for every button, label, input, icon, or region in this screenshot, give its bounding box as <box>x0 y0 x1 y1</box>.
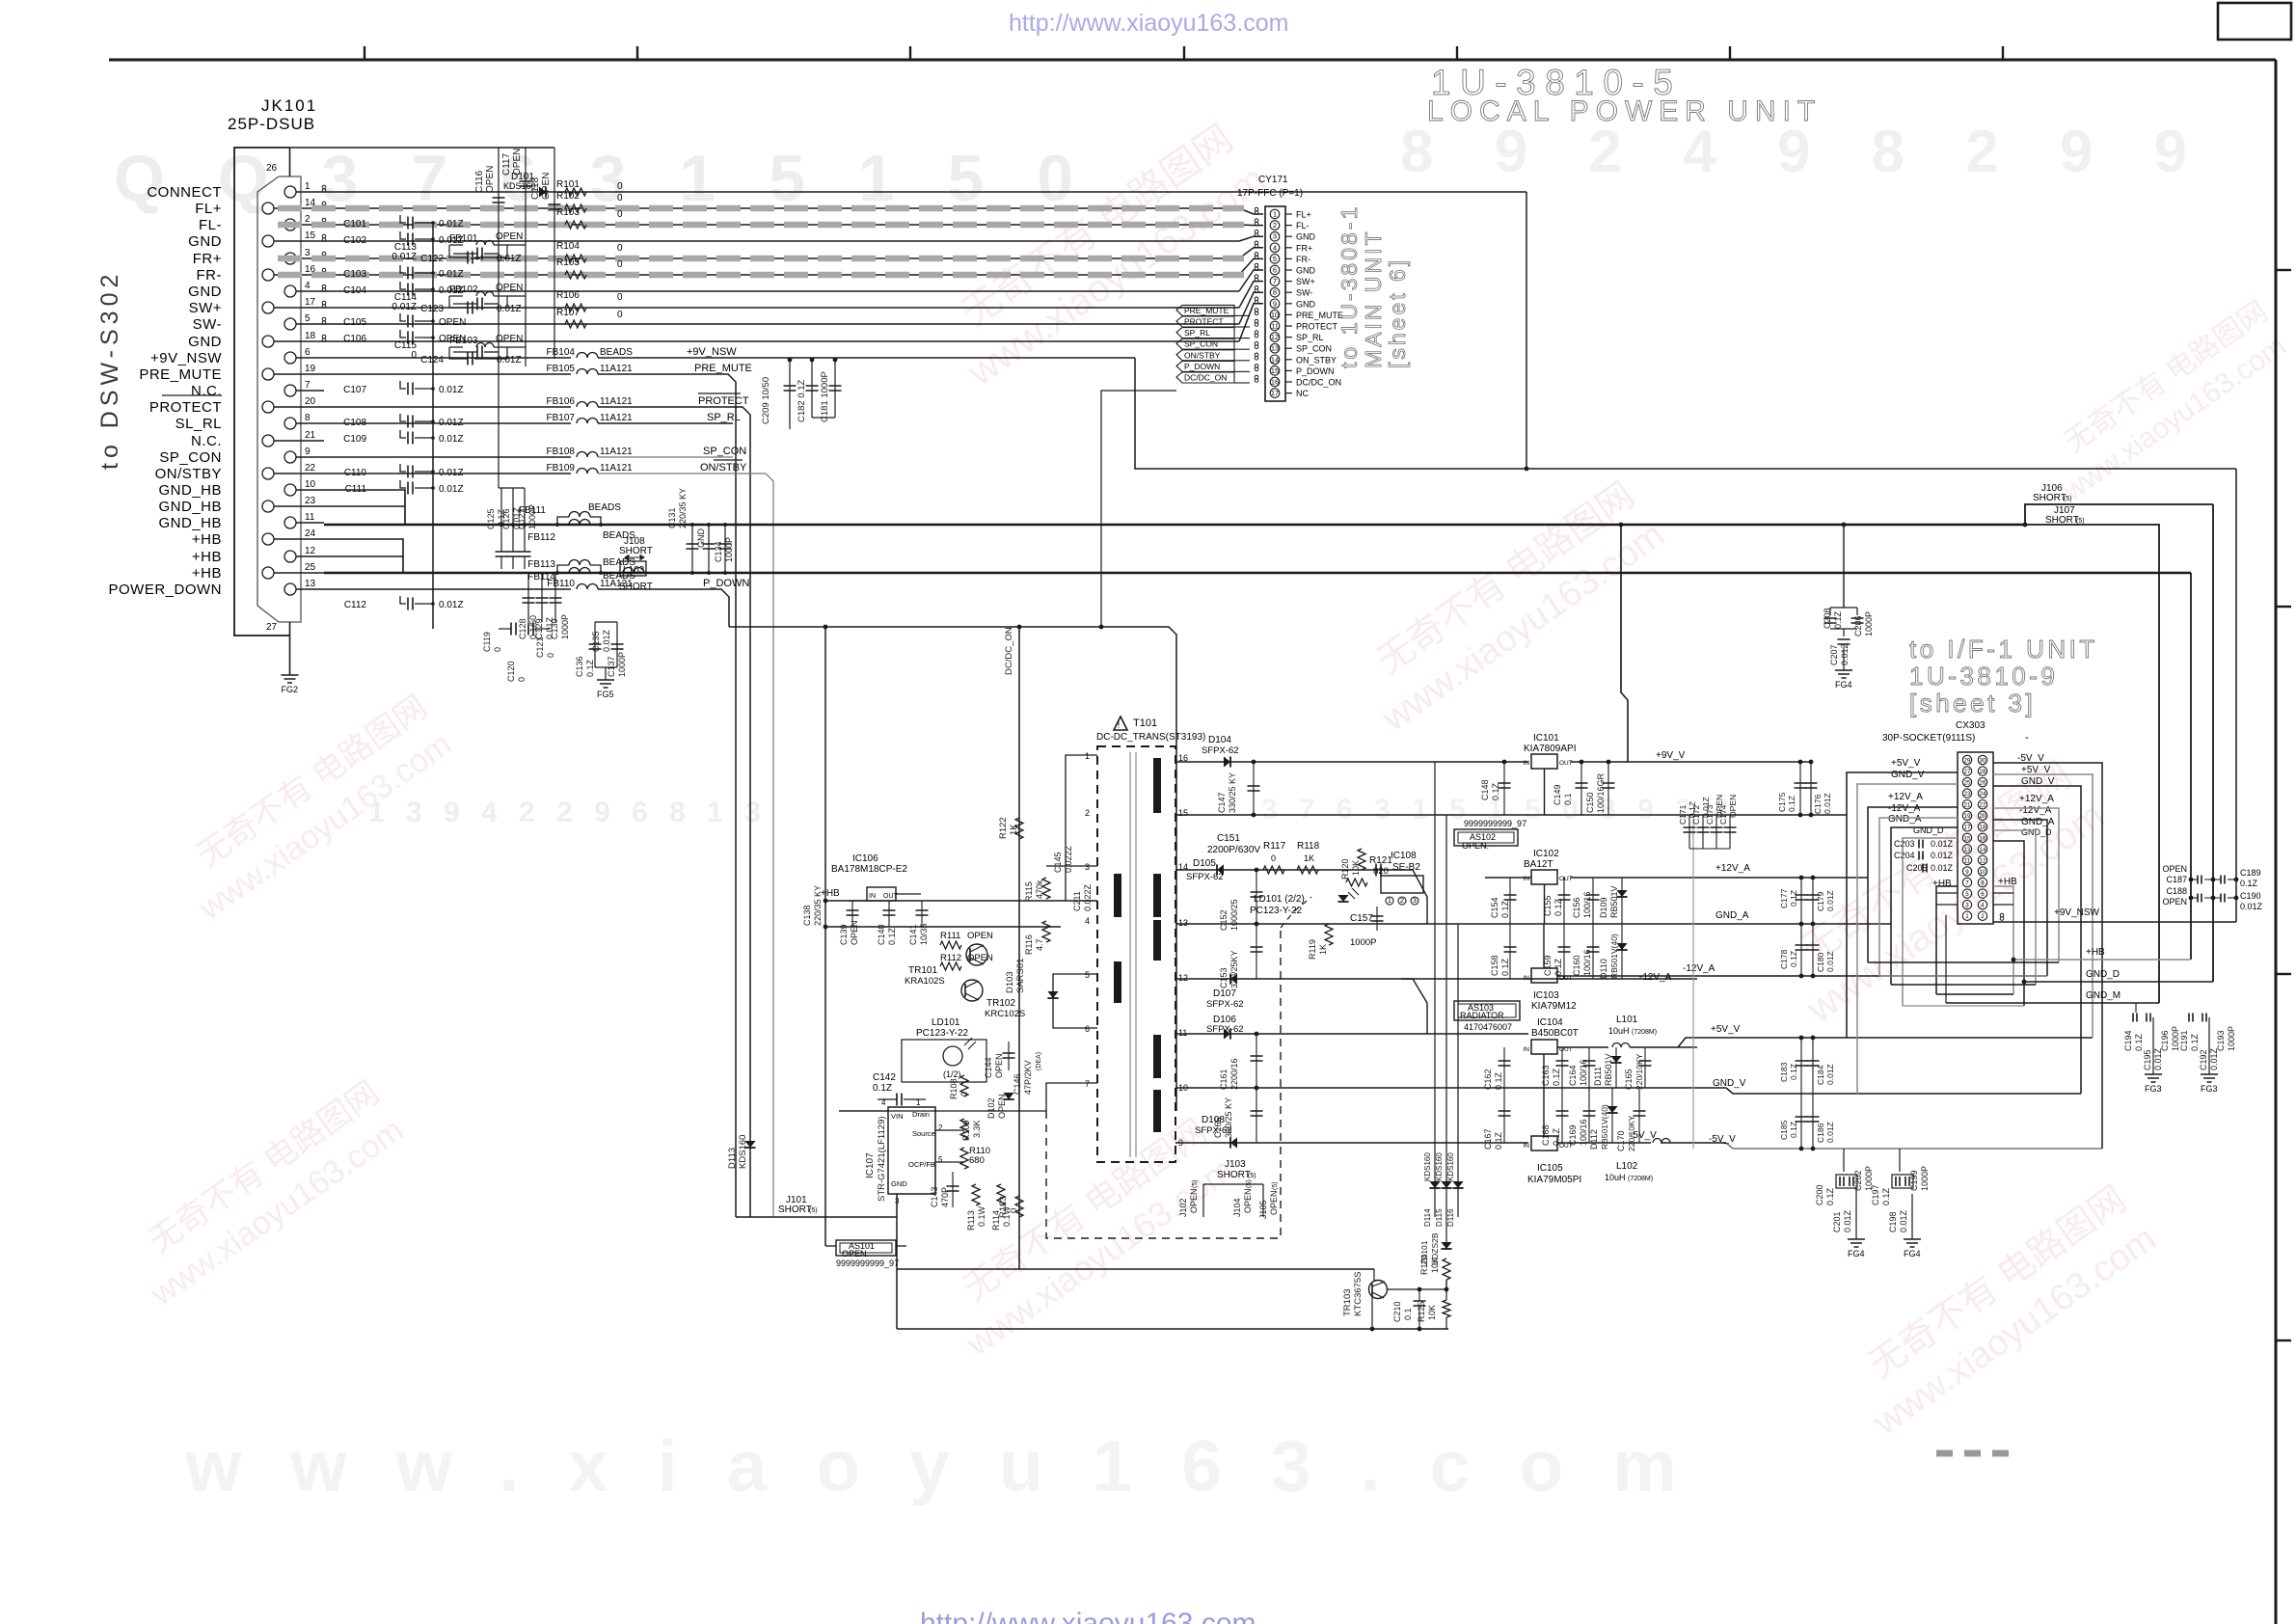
resistor R114 0.1W vertical <box>997 1184 1005 1205</box>
svg-text:R115: R115 <box>1024 881 1034 902</box>
svg-text:D103: D103 <box>1005 971 1015 993</box>
module AS103 RADIATOR <box>1454 1001 1520 1020</box>
svg-text:0.1Z: 0.1Z <box>2134 1033 2144 1051</box>
rail GND_V y=1134 <box>1485 1087 1726 1089</box>
capacitor C101 0.01Z <box>400 215 406 223</box>
rail +5V_V y=1076 <box>1678 1038 2093 1047</box>
svg-text:C152: C152 <box>1219 909 1229 931</box>
svg-text:C178: C178 <box>1779 949 1789 969</box>
svg-text:DC/DC_ON: DC/DC_ON <box>1296 378 1341 388</box>
svg-text:C138: C138 <box>802 905 812 926</box>
svg-text:C173: C173 <box>1705 804 1715 825</box>
svg-text:C120: C120 <box>506 661 516 682</box>
svg-text:(5): (5) <box>1192 1179 1199 1188</box>
svg-text:R125: R125 <box>1417 1301 1426 1322</box>
svg-text:OPEN: OPEN <box>1269 1190 1279 1215</box>
wire net to CY171 pin 6 <box>324 290 1239 292</box>
nest right rail 5 <box>1993 820 2047 976</box>
svg-text:0: 0 <box>617 259 623 270</box>
svg-text:25P-DSUB: 25P-DSUB <box>228 115 315 133</box>
svg-text:0.1W: 0.1W <box>977 1205 986 1227</box>
rail gnd primary y=961 <box>825 926 1061 928</box>
svg-text:FB113: FB113 <box>527 559 555 570</box>
svg-text:DC/DC_ON: DC/DC_ON <box>1184 373 1227 383</box>
nest right rail 6 <box>1993 830 2036 985</box>
capacitor C111 0.01Z <box>400 480 406 488</box>
svg-text:-5V_V: -5V_V <box>1709 1134 1736 1145</box>
capacitor C116 OPEN vertical <box>498 148 500 488</box>
svg-text:0.1Z: 0.1Z <box>1833 610 1843 629</box>
warning triangle <box>1114 717 1127 730</box>
wire pins 10-23-11 GND_HB join <box>324 490 405 525</box>
svg-text:680: 680 <box>969 1155 985 1166</box>
svg-text:PROTECT: PROTECT <box>698 395 749 407</box>
wire net to CY171 pin 1 <box>324 207 1239 209</box>
svg-text:(5): (5) <box>1248 1173 1256 1179</box>
svg-text:OUT: OUT <box>1559 760 1573 767</box>
svg-text:13: 13 <box>1964 847 1971 853</box>
svg-text:11: 11 <box>1271 321 1279 330</box>
svg-text:220/35 KY: 220/35 KY <box>678 488 688 528</box>
wire +HB rail down right side <box>2190 573 2192 960</box>
svg-text:D115: D115 <box>1435 1208 1444 1227</box>
svg-text:IC103: IC103 <box>1533 990 1559 1001</box>
svg-text:9: 9 <box>1965 869 1969 876</box>
svg-text:10: 10 <box>1980 869 1986 876</box>
JK101 pin 25 (+HB) <box>262 567 274 579</box>
nest left rail 6 <box>1903 838 1958 1006</box>
rail -12V_A y=1012 <box>1697 975 2047 977</box>
svg-text:0: 0 <box>546 653 555 658</box>
CX303 pins 11/12 <box>1962 855 1971 864</box>
CY171 pin 4 (FR+) <box>1270 243 1280 253</box>
svg-text:GND: GND <box>1296 232 1316 242</box>
CX303 pins 25/26 <box>1962 777 1971 786</box>
svg-text:47P/2KV: 47P/2KV <box>1023 1060 1033 1095</box>
svg-text:0.01Z: 0.01Z <box>1825 1122 1835 1143</box>
svg-text:C107: C107 <box>343 385 366 395</box>
svg-text:R107: R107 <box>556 308 580 318</box>
svg-text:(7208M): (7208M) <box>1628 1176 1653 1182</box>
svg-text:J103: J103 <box>1225 1159 1246 1170</box>
svg-text:C123: C123 <box>420 304 444 314</box>
svg-text:10: 10 <box>1271 311 1279 319</box>
border tick marks right <box>2276 269 2291 271</box>
JK101 pin 10 (GND_HB) <box>284 484 296 496</box>
svg-text:OPEN: OPEN <box>2162 864 2187 874</box>
svg-text:C195: C195 <box>2143 1049 2152 1070</box>
svg-text:SHORT: SHORT <box>619 546 653 556</box>
svg-text:POWER_DOWN: POWER_DOWN <box>109 582 223 598</box>
svg-text:6: 6 <box>1085 1024 1090 1034</box>
svg-text:FR+: FR+ <box>193 251 222 267</box>
svg-text:3.3K: 3.3K <box>972 1120 982 1138</box>
CX303 pins 3/4 <box>1962 900 1971 908</box>
svg-text:4.7: 4.7 <box>1035 938 1044 951</box>
svg-text:ON/STBY: ON/STBY <box>155 466 222 482</box>
svg-text:C160: C160 <box>1572 955 1581 976</box>
svg-text:FB111: FB111 <box>519 505 546 516</box>
svg-text:DC/DC_ON: DC/DC_ON <box>1004 627 1014 675</box>
transformer secondary winding bars <box>1153 758 1161 813</box>
svg-text:0.01Z: 0.01Z <box>1931 839 1954 849</box>
svg-text:KDS160: KDS160 <box>1435 1152 1444 1181</box>
svg-text:GND: GND <box>1296 299 1316 309</box>
svg-text:FR-: FR- <box>197 267 223 284</box>
ferrite bead FB106 11A121 <box>324 406 571 408</box>
svg-text:0.1Z: 0.1Z <box>873 1083 892 1094</box>
svg-text:18: 18 <box>1980 825 1986 831</box>
gray vertical line left of nest <box>1692 815 1694 1149</box>
svg-text:10: 10 <box>305 479 316 490</box>
JK101 pin 9 (SP_CON) <box>284 451 296 463</box>
svg-text:C103: C103 <box>343 269 366 280</box>
svg-text:C191: C191 <box>2179 1030 2189 1051</box>
secondary wire pin9 with D108 <box>1175 1142 1528 1144</box>
svg-text:SE-B2: SE-B2 <box>1392 862 1420 873</box>
svg-text:CONNECT: CONNECT <box>147 184 222 201</box>
CX303 pins 21/22 <box>1962 800 1971 809</box>
svg-text:15: 15 <box>1964 835 1971 842</box>
nest bottom connections <box>1868 961 2059 963</box>
svg-text:2: 2 <box>305 214 311 225</box>
svg-text:N.C.: N.C. <box>191 433 222 449</box>
svg-text:C139: C139 <box>839 924 849 945</box>
svg-text:C105: C105 <box>343 317 366 328</box>
svg-text:24: 24 <box>305 528 316 539</box>
secondary wire pin16 with D104 <box>1175 761 1528 763</box>
svg-text:FG4: FG4 <box>1904 1249 1921 1259</box>
CX303 pins 13/14 <box>1962 845 1971 853</box>
svg-text:[sheet 3]: [sheet 3] <box>1909 689 2036 717</box>
svg-text:L101: L101 <box>1616 1015 1638 1025</box>
svg-text:220/35 KY: 220/35 KY <box>813 885 823 926</box>
svg-text:BA12T: BA12T <box>1524 859 1553 870</box>
svg-text:+HB: +HB <box>2086 947 2105 958</box>
svg-text:0: 0 <box>617 310 623 320</box>
svg-text:1K: 1K <box>1318 944 1328 955</box>
svg-text:C155: C155 <box>1543 895 1553 916</box>
svg-text:0.1Z: 0.1Z <box>1494 1131 1503 1150</box>
JK101 pin 5 (SW-) <box>284 318 296 330</box>
connector JK101 outer box <box>234 148 290 636</box>
svg-text:D105: D105 <box>1193 858 1216 869</box>
svg-text:2200P/630V: 2200P/630V <box>1207 845 1260 855</box>
svg-text:SHORT: SHORT <box>2033 493 2066 503</box>
svg-text:0.01Z: 0.01Z <box>602 629 611 652</box>
svg-text:0.01Z: 0.01Z <box>1823 793 1832 814</box>
svg-text:(5): (5) <box>1272 1181 1279 1190</box>
svg-text:GND_HB: GND_HB <box>158 515 222 531</box>
svg-text:100/16: 100/16 <box>1579 1059 1588 1086</box>
svg-text:10/35: 10/35 <box>919 923 929 945</box>
svg-text:1 3 9 4 2 2 9 6 8 1 3: 1 3 9 4 2 2 9 6 8 1 3 <box>368 797 768 828</box>
svg-text:330/25KY: 330/25KY <box>1229 950 1239 988</box>
heavy rail GND_HB y=544 <box>324 524 2025 527</box>
rail +HB into primary y=934 <box>825 900 1097 902</box>
capacitor C106 OPEN <box>400 330 406 338</box>
svg-text:OPEN: OPEN <box>496 283 523 293</box>
svg-text:7: 7 <box>1965 880 1969 886</box>
svg-text:0.1Z: 0.1Z <box>1552 1068 1561 1086</box>
svg-text:0.01Z: 0.01Z <box>1840 642 1850 665</box>
svg-text:10K: 10K <box>1351 860 1361 876</box>
svg-text:Source: Source <box>912 1129 935 1138</box>
svg-text:0.1Z: 0.1Z <box>2240 879 2258 888</box>
nest right rail 3 <box>1993 786 2081 1094</box>
svg-text:C180: C180 <box>1816 952 1825 972</box>
svg-text:C211: C211 <box>1072 891 1082 911</box>
capacitor bus vertical line <box>432 222 434 629</box>
svg-text:-5V_V: -5V_V <box>1630 1130 1657 1141</box>
rail GND_D y=1018 <box>2024 981 2213 983</box>
svg-text:TR102: TR102 <box>986 998 1015 1009</box>
svg-text:IC107: IC107 <box>865 1152 876 1178</box>
svg-text:C183: C183 <box>1779 1062 1789 1082</box>
svg-text:GND_A: GND_A <box>1888 814 1922 825</box>
net label box DC/DC_ON <box>1176 372 1234 383</box>
svg-text:C153: C153 <box>1219 967 1229 988</box>
svg-text:0: 0 <box>617 193 623 203</box>
svg-text:19: 19 <box>1964 813 1971 820</box>
nest left rail 1 <box>1847 772 1958 1038</box>
svg-text:SP_CON: SP_CON <box>703 446 746 457</box>
wire pins 24-12 +HB join <box>324 539 403 573</box>
svg-text:C189: C189 <box>2240 868 2261 878</box>
svg-text:PROTECT: PROTECT <box>149 399 222 416</box>
svg-text:1000P: 1000P <box>560 614 570 639</box>
svg-text:SP_CON: SP_CON <box>159 449 222 466</box>
svg-text:27: 27 <box>1964 769 1971 775</box>
svg-text:R118: R118 <box>1297 841 1320 852</box>
svg-text:J102: J102 <box>1178 1198 1188 1217</box>
svg-text:0.1Z: 0.1Z <box>1500 958 1510 976</box>
ground FG4 under C207 <box>1835 670 1852 678</box>
svg-text:4: 4 <box>881 1098 886 1107</box>
svg-text:24: 24 <box>1980 791 1986 798</box>
svg-text:0.1Z: 0.1Z <box>1553 898 1563 916</box>
svg-text:IC105: IC105 <box>1537 1163 1563 1174</box>
JK101 pin 15 (GND) <box>262 235 274 247</box>
svg-text:0.1Z: 0.1Z <box>887 927 897 945</box>
svg-text:29: 29 <box>1964 757 1971 764</box>
svg-text:R119: R119 <box>1308 939 1317 960</box>
svg-text:5: 5 <box>1273 255 1277 263</box>
JK101 pin 20 (PROTECT) <box>262 401 274 413</box>
resistor R120 10K vertical <box>1358 849 1365 870</box>
JK101 pin 7 (N.C.) <box>284 385 296 396</box>
svg-text:STR-G7421(LF1129): STR-G7421(LF1129) <box>877 1116 887 1202</box>
svg-text:C171: C171 <box>1678 804 1688 825</box>
module AS101 OPEN <box>836 1240 896 1256</box>
thick gray dashed overlay <box>278 272 1244 279</box>
resistor R110 680 vertical <box>960 1148 968 1169</box>
svg-text:D111: D111 <box>1593 1067 1603 1086</box>
svg-text:0.01Z: 0.01Z <box>439 434 464 445</box>
svg-text:4: 4 <box>1085 916 1090 926</box>
svg-text:-12V_A: -12V_A <box>1683 963 1715 974</box>
svg-text:9999999999_97: 9999999999_97 <box>1464 819 1526 828</box>
svg-text:220/10KY: 220/10KY <box>1634 1053 1644 1090</box>
svg-text:GND_V: GND_V <box>1891 770 1925 780</box>
svg-text:0.022Z: 0.022Z <box>1064 845 1073 873</box>
thick gray dashed overlay <box>278 205 1244 212</box>
ferrite bead FB110 11A121 <box>324 588 571 590</box>
svg-text:0.01Z: 0.01Z <box>2153 1047 2163 1070</box>
svg-text:FG4: FG4 <box>1835 680 1852 690</box>
svg-text:15: 15 <box>305 230 316 241</box>
svg-text:C106: C106 <box>343 334 366 344</box>
svg-text:D109: D109 <box>1599 897 1608 918</box>
JK101 pin 1 (CONNECT) <box>284 186 296 198</box>
JK101 pin 11 (GND_HB) <box>284 517 296 528</box>
diode D104 SFPX-62 <box>1224 756 1230 767</box>
resistor R116 4.7 vertical <box>1042 921 1050 942</box>
svg-text:0.01Z: 0.01Z <box>439 484 464 495</box>
resistor R115 470k vertical <box>1042 878 1050 899</box>
net label box P_DOWN <box>1176 361 1234 371</box>
svg-text:0.01Z: 0.01Z <box>2240 902 2263 911</box>
bottom rail y=1316 <box>897 1268 1374 1270</box>
svg-text:0.01Z: 0.01Z <box>439 600 464 610</box>
net label box PRE_MUTE <box>1176 305 1234 315</box>
svg-text:C130: C130 <box>550 618 559 639</box>
svg-text:11: 11 <box>305 512 315 523</box>
svg-text:FG3: FG3 <box>2201 1084 2218 1094</box>
svg-text:0: 0 <box>959 1092 969 1096</box>
svg-text:26: 26 <box>266 163 278 174</box>
svg-text:http://www.xiaoyu163.com: http://www.xiaoyu163.com <box>1009 10 1288 37</box>
svg-text:+HB: +HB <box>821 888 840 899</box>
svg-text:C124: C124 <box>420 355 444 365</box>
primary connection wires <box>1066 755 1097 901</box>
svg-text:OPEN: OPEN <box>496 334 523 344</box>
ground FG4 right <box>1904 1239 1921 1247</box>
svg-text:22: 22 <box>305 463 316 474</box>
svg-text:FB103: FB103 <box>449 336 478 346</box>
JK101 pin 12 (+HB) <box>284 551 296 562</box>
CX303 pins 5/6 <box>1962 889 1971 898</box>
svg-text:3: 3 <box>1085 862 1090 872</box>
svg-text:470k: 470k <box>1035 880 1044 899</box>
svg-text:LD101: LD101 <box>932 1017 960 1028</box>
border right line <box>2275 60 2278 1624</box>
svg-text:C198: C198 <box>1888 1211 1898 1232</box>
svg-text:0: 0 <box>617 209 623 220</box>
svg-text:R105: R105 <box>556 257 580 268</box>
svg-text:MAIN UNIT: MAIN UNIT <box>1361 229 1386 368</box>
svg-text:(5): (5) <box>2076 518 2085 525</box>
svg-text:SP_CON: SP_CON <box>1296 344 1332 354</box>
svg-text:C200: C200 <box>1815 1184 1824 1205</box>
svg-text:1: 1 <box>916 1098 921 1107</box>
svg-text:SP_RL: SP_RL <box>1184 328 1210 338</box>
svg-text:C205: C205 <box>1906 863 1928 873</box>
wire ON/STBY trunk down <box>598 474 773 1217</box>
svg-text:OPEN: OPEN <box>850 920 859 945</box>
svg-text:C185: C185 <box>1779 1120 1789 1140</box>
svg-text:27: 27 <box>266 622 278 633</box>
svg-text:0.01Z: 0.01Z <box>439 219 464 230</box>
svg-text:[sheet 6]: [sheet 6] <box>1385 257 1410 368</box>
svg-text:C112: C112 <box>344 600 367 610</box>
svg-text:RB501V: RB501V <box>1604 1053 1613 1086</box>
svg-text:GND_V: GND_V <box>1713 1078 1746 1089</box>
secondary dashed boundary <box>1046 928 1281 1238</box>
svg-text:OUT: OUT <box>1559 876 1573 882</box>
watermark diagonal center <box>1346 474 1672 740</box>
svg-text:PRE_MUTE: PRE_MUTE <box>139 366 222 383</box>
CY171 pin 17 (NC) <box>1270 389 1280 398</box>
svg-text:C122: C122 <box>420 254 444 264</box>
wire net to CY171 pin 8 <box>324 323 1239 325</box>
svg-text:9: 9 <box>305 447 311 457</box>
svg-text:(1/2): (1/2) <box>943 1069 961 1079</box>
svg-text:0: 0 <box>517 677 527 682</box>
svg-text:BA178M18CP-E2: BA178M18CP-E2 <box>831 864 907 875</box>
svg-text:23: 23 <box>305 496 316 506</box>
transformer T101 dashed box <box>1097 746 1175 1162</box>
svg-text:FB104: FB104 <box>547 347 576 358</box>
svg-text:11: 11 <box>1178 1028 1187 1038</box>
svg-text:0.01Z: 0.01Z <box>1825 890 1835 911</box>
svg-text:FR+: FR+ <box>1296 243 1312 253</box>
svg-text:0.01Z: 0.01Z <box>1825 1064 1835 1085</box>
heavy rail +HB y=594 <box>324 572 2191 574</box>
svg-text:R106: R106 <box>556 290 580 301</box>
wire net to CY171 pin 9 <box>324 340 1239 342</box>
resistor R106 0 <box>565 304 586 311</box>
rail +9V_NSW into CX303 pin2 <box>1993 921 2236 923</box>
svg-text:1: 1 <box>305 181 311 192</box>
svg-text:+9V_NSW: +9V_NSW <box>2054 907 2100 918</box>
svg-text:IN: IN <box>1524 1046 1530 1053</box>
svg-text:SFPX-62: SFPX-62 <box>1206 1024 1244 1035</box>
svg-text:GND_A: GND_A <box>1715 910 1749 921</box>
svg-text:0.01Z: 0.01Z <box>1825 951 1835 972</box>
diode D106 SFPX-62 <box>1224 1028 1230 1039</box>
svg-text:15: 15 <box>1271 366 1279 375</box>
svg-text:C157: C157 <box>1350 913 1373 924</box>
svg-text:FG3: FG3 <box>2145 1084 2162 1094</box>
svg-text:16: 16 <box>1980 835 1986 842</box>
svg-text:SW+: SW+ <box>1296 277 1315 286</box>
nest left rail 2 <box>1857 784 1958 1094</box>
svg-text:-: - <box>2025 732 2029 744</box>
svg-text:0.01Z: 0.01Z <box>439 385 464 395</box>
svg-text:(5): (5) <box>809 1207 818 1214</box>
svg-text:C102: C102 <box>343 235 366 246</box>
wire SP_RL stub <box>598 422 733 424</box>
ground FG3 left <box>2145 1074 2162 1082</box>
wire net to CY171 pin 7 <box>324 307 1239 309</box>
svg-text:0.01Z: 0.01Z <box>497 254 522 264</box>
ferrite bead FB107 11A121 <box>324 422 571 424</box>
svg-text:C204: C204 <box>1894 851 1915 860</box>
svg-text:30P-SOCKET(9111S): 30P-SOCKET(9111S) <box>1882 733 1975 744</box>
svg-text:R111: R111 <box>940 931 960 941</box>
svg-text:100/16GR: 100/16GR <box>1596 772 1606 813</box>
svg-text:KDS160: KDS160 <box>738 1135 748 1169</box>
svg-text:+9V_NSW: +9V_NSW <box>687 346 737 358</box>
svg-text:30: 30 <box>1980 757 1986 764</box>
svg-text:+12V_A: +12V_A <box>1888 792 1923 802</box>
wire CONNECT from pin1 through D101 R101 <box>324 191 1526 193</box>
svg-text:+HB: +HB <box>192 549 222 565</box>
CY171 pin 16 (DC/DC_ON) <box>1270 377 1280 387</box>
svg-text:C126: C126 <box>501 508 511 529</box>
wire net to CY171 pin 5 <box>324 274 1239 276</box>
